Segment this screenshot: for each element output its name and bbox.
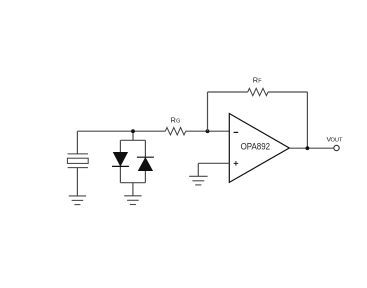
svg-text:G: G xyxy=(176,119,180,125)
wire: feedback right vertical xyxy=(306,92,308,148)
node junction dot (input / clamp) xyxy=(131,129,135,133)
terminal VOUT (open circle) xyxy=(334,145,339,150)
svg-text:OUT: OUT xyxy=(331,138,344,144)
wire: input net from crystal corner to RG left lead xyxy=(77,130,165,132)
node junction dot (output / feedback) xyxy=(306,146,310,150)
crystal X1 xyxy=(67,154,88,168)
wire: feedback top left segment xyxy=(208,91,248,93)
wire: crystal top stub xyxy=(76,131,78,154)
wire: feedback top right segment xyxy=(268,91,307,93)
svg-text:OPA892: OPA892 xyxy=(241,141,271,151)
resistor RG xyxy=(165,128,186,135)
op-amp plus sign xyxy=(234,161,239,166)
wire: non-inverting input xyxy=(198,162,229,164)
ground (non-inverting input) xyxy=(189,176,208,185)
svg-text:F: F xyxy=(258,79,262,85)
wire: feedback left vertical xyxy=(207,92,209,131)
wire: output xyxy=(289,147,333,149)
wire: diode clamp bottom stub xyxy=(132,183,134,196)
wire: diode clamp top stub xyxy=(132,131,134,140)
wire: non-inverting ground stub xyxy=(197,163,199,176)
diode D1 (left, cathode down) xyxy=(112,152,129,166)
svg-text:R: R xyxy=(171,116,176,125)
wire: RG to op-amp inverting input xyxy=(186,130,230,132)
resistor RF xyxy=(248,88,268,95)
svg-text:R: R xyxy=(253,76,258,85)
wire: crystal bottom stub xyxy=(76,168,78,196)
op-amp U1 OPA892 triangle xyxy=(229,114,289,183)
diode D2 (right, cathode up) xyxy=(137,157,154,170)
ground (diode clamp) xyxy=(124,196,141,205)
op-amp minus sign xyxy=(234,131,239,133)
wire: diode clamp box rails xyxy=(120,140,145,182)
node junction dot (feedback tap) xyxy=(206,129,210,133)
ground (crystal) xyxy=(69,196,86,205)
